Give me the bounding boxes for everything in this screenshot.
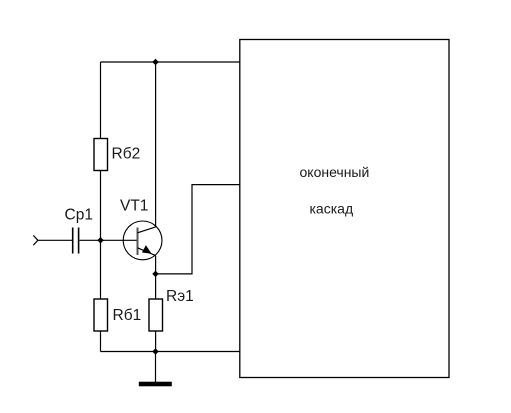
node base junction <box>97 237 104 244</box>
svg-text:VT1: VT1 <box>120 198 148 215</box>
node ground junction <box>152 348 159 355</box>
input terminal <box>33 235 38 245</box>
svg-text:Rб2: Rб2 <box>112 146 141 163</box>
svg-text:каскад: каскад <box>310 201 354 217</box>
resistor Rб1 <box>94 299 141 331</box>
wire emitter vertical <box>155 256 157 299</box>
wire bottom rail <box>101 351 241 353</box>
svg-text:Rб1: Rб1 <box>113 307 142 324</box>
svg-text:Rэ1: Rэ1 <box>166 288 194 305</box>
wire emitter to output stage <box>156 185 240 274</box>
resistor Rэ1 <box>149 288 194 331</box>
ground <box>139 352 172 387</box>
wire left branch upper <box>100 62 102 139</box>
wire emitter resistor to rail <box>155 331 157 352</box>
svg-text:Ср1: Ср1 <box>65 207 93 224</box>
wire left branch middle <box>100 171 102 300</box>
node emitter junction <box>152 271 159 278</box>
wire top rail <box>101 61 241 63</box>
wire input to capacitor <box>38 239 72 241</box>
capacitor Cp1 <box>65 207 93 254</box>
wire capacitor to base <box>79 239 137 241</box>
wire left branch lower <box>100 331 102 352</box>
node collector-rail junction <box>152 59 159 66</box>
block output stage <box>240 40 449 378</box>
transistor VT1 <box>120 198 162 260</box>
wire collector vertical <box>155 62 157 227</box>
svg-text:оконечный: оконечный <box>300 164 370 180</box>
resistor Rб2 <box>94 139 140 171</box>
